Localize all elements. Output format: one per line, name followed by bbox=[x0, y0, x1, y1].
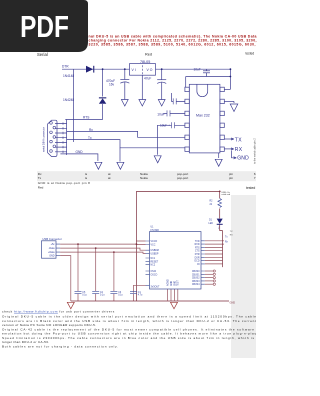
svg-text:VCCO: VCCO bbox=[151, 241, 158, 243]
svg-text:FT232R: FT232R bbox=[151, 230, 160, 232]
svg-text:CTS: CTS bbox=[195, 251, 200, 253]
svg-text:Both cables are not for chargi: Both cables are not for charging - data … bbox=[2, 344, 118, 348]
svg-text:tested: tested bbox=[246, 52, 255, 56]
svg-text:CBUS3: CBUS3 bbox=[192, 281, 200, 283]
svg-text:DCD: DCD bbox=[195, 261, 200, 263]
svg-text:GND: GND bbox=[49, 255, 55, 258]
svg-text:TX: TX bbox=[235, 137, 242, 143]
svg-text:Tx: Tx bbox=[88, 136, 92, 140]
svg-text:3220, 3585, 3586, 3587, 3588,: 3220, 3585, 3586, 3587, 3588, 3589, 5100… bbox=[89, 42, 256, 46]
svg-text:PDF: PDF bbox=[20, 9, 69, 43]
svg-text:RXD: RXD bbox=[195, 244, 200, 246]
svg-text:1N4148: 1N4148 bbox=[63, 74, 74, 78]
svg-text:0.1u: 0.1u bbox=[100, 295, 105, 297]
svg-text:78L05: 78L05 bbox=[140, 60, 150, 64]
svg-text:Nokia: Nokia bbox=[140, 176, 148, 180]
svg-text:GND: GND bbox=[174, 281, 176, 286]
svg-text:TXD: TXD bbox=[195, 241, 200, 243]
svg-text:Serial: Serial bbox=[37, 52, 48, 57]
svg-text:10uF: 10uF bbox=[194, 67, 201, 71]
svg-text:Max 232: Max 232 bbox=[196, 113, 210, 117]
svg-text:TEST: TEST bbox=[178, 280, 180, 286]
svg-text:-Data: -Data bbox=[49, 247, 56, 250]
svg-text:CBUS2: CBUS2 bbox=[192, 278, 200, 280]
svg-text:0.1u: 0.1u bbox=[82, 295, 87, 297]
svg-text:GND is at Nokia pop-port pin 8: GND is at Nokia pop-port pin 8 bbox=[38, 181, 90, 185]
svg-text:Tx: Tx bbox=[38, 176, 42, 180]
svg-text:V I: V I bbox=[132, 68, 136, 72]
svg-text:GND: GND bbox=[237, 156, 249, 162]
svg-text:pin: pin bbox=[229, 176, 233, 180]
svg-text:10uF +: 10uF + bbox=[160, 124, 170, 128]
svg-text:DTR: DTR bbox=[62, 64, 69, 68]
svg-text:longer than DKU-2 or CA-53.: longer than DKU-2 or CA-53. bbox=[2, 340, 49, 344]
svg-text:1N4248: 1N4248 bbox=[63, 98, 74, 102]
svg-text:GND: GND bbox=[76, 150, 84, 154]
svg-text:VCC: VCC bbox=[151, 245, 156, 247]
svg-text:RI: RI bbox=[197, 264, 200, 266]
svg-text:CBUS4: CBUS4 bbox=[192, 284, 200, 286]
svg-text:16v: 16v bbox=[109, 82, 115, 86]
svg-text:3V3OUT: 3V3OUT bbox=[151, 286, 161, 288]
svg-text:4.7u: 4.7u bbox=[138, 295, 143, 297]
svg-text:version of Nokia PC Suite NO L: version of Nokia PC Suite NO LONGER supp… bbox=[2, 323, 96, 327]
svg-text:CBUS1: CBUS1 bbox=[192, 274, 200, 276]
svg-text:cable red: cable red bbox=[222, 193, 231, 196]
svg-text:NC1: NC1 bbox=[151, 258, 156, 260]
svg-text:OSCI: OSCI bbox=[151, 271, 157, 273]
svg-text:to the serial cable pin 2: to the serial cable pin 2 bbox=[254, 138, 257, 164]
svg-text:V O: V O bbox=[147, 68, 153, 72]
svg-text:0.1u: 0.1u bbox=[118, 295, 123, 297]
svg-text:Rx: Rx bbox=[89, 128, 93, 132]
svg-text:DTR: DTR bbox=[195, 254, 200, 256]
svg-text:serial DB-9 connector: serial DB-9 connector bbox=[42, 127, 46, 152]
svg-text:Red: Red bbox=[145, 53, 152, 57]
svg-text:RTS: RTS bbox=[83, 115, 89, 119]
svg-text:USBDP: USBDP bbox=[151, 253, 159, 255]
svg-text:AGND: AGND bbox=[167, 279, 170, 286]
svg-text:RTS: RTS bbox=[195, 247, 200, 249]
svg-text:Red: Red bbox=[38, 186, 44, 190]
svg-text:USB Connector: USB Connector bbox=[42, 237, 62, 241]
svg-text:DSR: DSR bbox=[195, 257, 200, 259]
svg-text:NC2: NC2 bbox=[151, 265, 156, 267]
svg-text:tested: tested bbox=[246, 186, 255, 190]
svg-text:at: at bbox=[108, 176, 111, 180]
svg-text:pop-port: pop-port bbox=[177, 176, 188, 180]
svg-text:10uF: 10uF bbox=[157, 113, 164, 117]
svg-text:GND: GND bbox=[230, 301, 236, 304]
svg-text:47uF: 47uF bbox=[144, 76, 151, 80]
svg-text:RESET: RESET bbox=[151, 261, 159, 263]
svg-text:GND: GND bbox=[171, 281, 173, 286]
svg-text:USBDM: USBDM bbox=[151, 250, 159, 252]
svg-text:CBUS0: CBUS0 bbox=[192, 271, 200, 273]
svg-text:OSCO: OSCO bbox=[151, 274, 158, 276]
svg-text:LED: LED bbox=[209, 223, 214, 225]
svg-text:check http://www.ftdichip.com: check http://www.ftdichip.com for usb po… bbox=[2, 310, 115, 314]
svg-text:RX: RX bbox=[235, 147, 243, 153]
